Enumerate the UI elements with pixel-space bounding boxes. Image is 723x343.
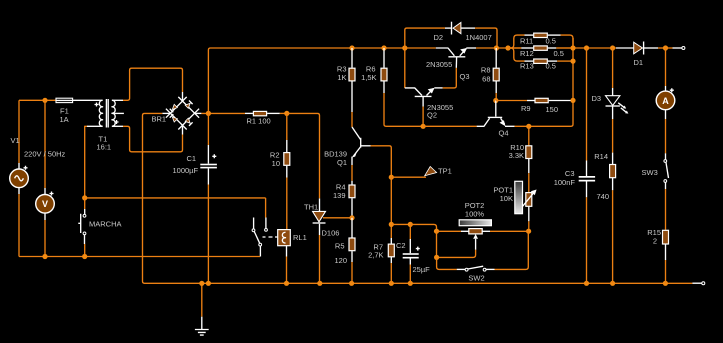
- resistor R4: [349, 181, 355, 218]
- svg-text:120: 120: [334, 256, 347, 265]
- svg-text:C1: C1: [187, 154, 197, 163]
- wire bus Q3 emitter to R8 node: [476, 47, 521, 49]
- resistor R6: [381, 48, 423, 126]
- wire y126 left segment: [423, 125, 477, 127]
- svg-text:2: 2: [653, 237, 657, 246]
- svg-text:0.5: 0.5: [546, 37, 556, 46]
- terminal 0V rail end: [702, 282, 705, 285]
- resistor R13: [508, 48, 573, 63]
- node junction V branch: [42, 98, 47, 103]
- ground: [195, 283, 209, 335]
- svg-text:A: A: [662, 96, 669, 106]
- node C2 on rail: [408, 281, 413, 286]
- svg-text:0.5: 0.5: [554, 49, 564, 58]
- node C3 on rail: [584, 281, 589, 286]
- svg-text:D106: D106: [322, 229, 340, 238]
- svg-text:TH1: TH1: [304, 203, 318, 212]
- wire V1 branch: [18, 100, 20, 256]
- transistor Q3 2N3055: [436, 48, 476, 68]
- svg-text:68: 68: [482, 75, 490, 84]
- resistor R9: [496, 98, 571, 102]
- svg-text:150: 150: [546, 105, 559, 114]
- svg-text:139: 139: [333, 191, 346, 200]
- node R7 on rail: [389, 281, 394, 286]
- svg-text:2,7K: 2,7K: [368, 251, 383, 260]
- node R14 on rail: [610, 281, 615, 286]
- node bus ammeter: [663, 45, 668, 50]
- wire TP1: [391, 176, 426, 178]
- svg-text:1N4007: 1N4007: [466, 33, 492, 42]
- resistor R3: [349, 48, 355, 127]
- node bus R6: [381, 45, 386, 50]
- wire fuse to transformer primary: [73, 99, 103, 101]
- node R9 right: [570, 98, 575, 103]
- wire node to thyristor column: [287, 113, 320, 198]
- svg-text:25µF: 25µF: [413, 265, 431, 274]
- transformer T1: [95, 99, 119, 128]
- svg-text:TP1: TP1: [438, 167, 452, 176]
- svg-text:SW2: SW2: [468, 274, 484, 283]
- test point TP1: [425, 167, 437, 176]
- svg-text:220V / 50Hz: 220V / 50Hz: [24, 150, 66, 159]
- wire voltmeter branch: [44, 100, 46, 256]
- diode D1: [616, 42, 682, 55]
- wire bridge right to +C bus: [195, 112, 245, 114]
- node R15 on rail: [663, 281, 668, 286]
- resistor R11: [508, 33, 573, 48]
- svg-text:1K: 1K: [337, 73, 346, 82]
- svg-text:R13: R13: [520, 62, 534, 71]
- node R5 on rail: [349, 281, 354, 286]
- svg-text:10: 10: [272, 159, 280, 168]
- fuse F1: [56, 98, 73, 102]
- svg-text:R14: R14: [594, 152, 608, 161]
- wire R2 branch: [286, 113, 288, 229]
- node ground on rail: [199, 281, 204, 286]
- wire C1 branch: [207, 113, 209, 283]
- LED D3: [606, 48, 629, 165]
- source V1: [10, 166, 29, 188]
- svg-text:1000µF: 1000µF: [173, 166, 199, 175]
- svg-text:D3: D3: [592, 94, 602, 103]
- svg-text:Q4: Q4: [499, 129, 509, 138]
- svg-text:R1 100: R1 100: [247, 116, 271, 125]
- node bus R11 bracket: [505, 45, 510, 50]
- svg-text:R5: R5: [335, 242, 345, 251]
- wire 0V rail: [145, 282, 702, 284]
- node MARCHA top: [82, 195, 87, 200]
- svg-text:1,5K: 1,5K: [361, 73, 376, 82]
- wire transformer primary bottom: [85, 126, 103, 198]
- wire transformer secondary bottom: [112, 126, 183, 152]
- svg-text:R9: R9: [521, 104, 531, 113]
- node C2 top: [408, 222, 413, 227]
- svg-text:C2: C2: [396, 241, 406, 250]
- svg-text:R8: R8: [481, 66, 491, 75]
- svg-text:0.5: 0.5: [546, 62, 556, 71]
- node feedback TP1: [389, 175, 394, 180]
- svg-text:BR1: BR1: [152, 115, 167, 124]
- node R1 right: [284, 111, 289, 116]
- svg-text:R12: R12: [520, 49, 534, 58]
- wire C2 node to POT2 node: [410, 224, 436, 231]
- node POT2 left: [434, 229, 439, 234]
- relay contact: [252, 198, 278, 257]
- wire bridge left to 0V column: [143, 113, 171, 283]
- svg-text:Q1: Q1: [337, 158, 347, 167]
- svg-text:100%: 100%: [465, 209, 485, 218]
- potentiometer POT1: [515, 181, 537, 231]
- node R7 top: [389, 222, 394, 227]
- svg-text:10K: 10K: [500, 194, 513, 203]
- wire main top bus riser: [208, 48, 435, 113]
- node bridge output: [206, 111, 211, 116]
- thyristor TH1 D106: [313, 198, 326, 283]
- svg-text:1A: 1A: [60, 115, 69, 124]
- node TH1 gate: [349, 215, 354, 220]
- svg-text:16:1: 16:1: [97, 142, 112, 151]
- svg-text:3.3K: 3.3K: [509, 151, 524, 160]
- node TH1 on rail: [317, 281, 322, 286]
- svg-text:2N3055: 2N3055: [426, 60, 452, 69]
- node V meter bottom: [42, 254, 47, 259]
- wire MARCHA node row: [85, 197, 266, 199]
- resistor R5: [349, 218, 355, 283]
- node bus Q2 collector: [402, 45, 407, 50]
- node bus C3: [584, 45, 589, 50]
- diode D2 loop: [405, 22, 497, 48]
- node bus R3: [349, 45, 354, 50]
- capacitor C2: [403, 224, 420, 283]
- node wiper: [434, 255, 439, 260]
- svg-text:D2: D2: [434, 33, 444, 42]
- potentiometer POT2: [437, 220, 529, 258]
- svg-text:SW3: SW3: [642, 168, 658, 177]
- wire y126 right segment: [515, 38, 573, 126]
- capacitor C3: [579, 48, 595, 283]
- wire POT2 node down: [436, 231, 438, 257]
- node C1 on rail: [206, 281, 211, 286]
- wire feedback column: [390, 177, 392, 238]
- transistor Q1 BD139: [352, 127, 371, 181]
- node RL1 on rail: [284, 281, 289, 286]
- node Q4 collector: [493, 98, 498, 103]
- switch SW2 loop: [437, 231, 529, 271]
- wire transformer secondary top: [112, 68, 183, 101]
- node Q2 base: [421, 124, 426, 129]
- node POT1 bottom: [526, 229, 531, 234]
- svg-text:MARCHA: MARCHA: [89, 220, 122, 229]
- transistor Q4: [477, 101, 515, 127]
- svg-text:Q2: Q2: [427, 111, 437, 120]
- node bracket right bottom: [570, 59, 575, 64]
- node Q4 emitter R10: [526, 124, 531, 129]
- svg-text:Q3: Q3: [460, 72, 470, 81]
- node bracket right top: [570, 45, 575, 50]
- switch SW3: [664, 153, 669, 230]
- voltmeter V: [36, 192, 55, 214]
- svg-text:R11: R11: [520, 37, 533, 46]
- resistor R1: [245, 111, 280, 115]
- svg-text:V: V: [42, 199, 48, 209]
- transistor Q2 2N3055: [405, 48, 443, 126]
- resistor R10: [526, 126, 532, 192]
- wire Q1 base to feedback node: [371, 146, 392, 177]
- resistor R8: [493, 48, 499, 101]
- resistor R12: [508, 46, 573, 50]
- wire bottom-left bus: [19, 256, 260, 258]
- capacitor C1: [200, 154, 217, 168]
- resistor R15: [663, 230, 669, 283]
- resistor R7: [388, 238, 394, 283]
- svg-text:C3: C3: [565, 169, 575, 178]
- resistor R2: [284, 153, 290, 166]
- relay coil RL1: [278, 230, 291, 284]
- wire top-left horizontal to fuse: [19, 99, 56, 101]
- ammeter branch: [656, 48, 675, 153]
- svg-text:100nF: 100nF: [554, 178, 576, 187]
- wire transformer secondary centre tap stub: [112, 112, 124, 114]
- bridge rectifier BR1: [166, 97, 199, 130]
- resistor R14: [610, 165, 616, 284]
- switch MARCHA: [78, 198, 86, 257]
- wire Q2 emitter to Q3 base: [443, 68, 457, 88]
- wire R1 to node: [280, 112, 287, 114]
- svg-text:740: 740: [597, 192, 610, 201]
- svg-text:RL1: RL1: [293, 233, 307, 242]
- svg-text:D1: D1: [634, 58, 644, 67]
- node MARCHA bottom: [82, 254, 87, 259]
- wire TH1 gate: [323, 217, 352, 219]
- wire R7 node to C2 node: [391, 223, 410, 225]
- terminal D1 output: [682, 47, 685, 50]
- svg-text:V1: V1: [11, 136, 20, 145]
- node bus D1 D3: [610, 45, 615, 50]
- node bus R8: [494, 45, 499, 50]
